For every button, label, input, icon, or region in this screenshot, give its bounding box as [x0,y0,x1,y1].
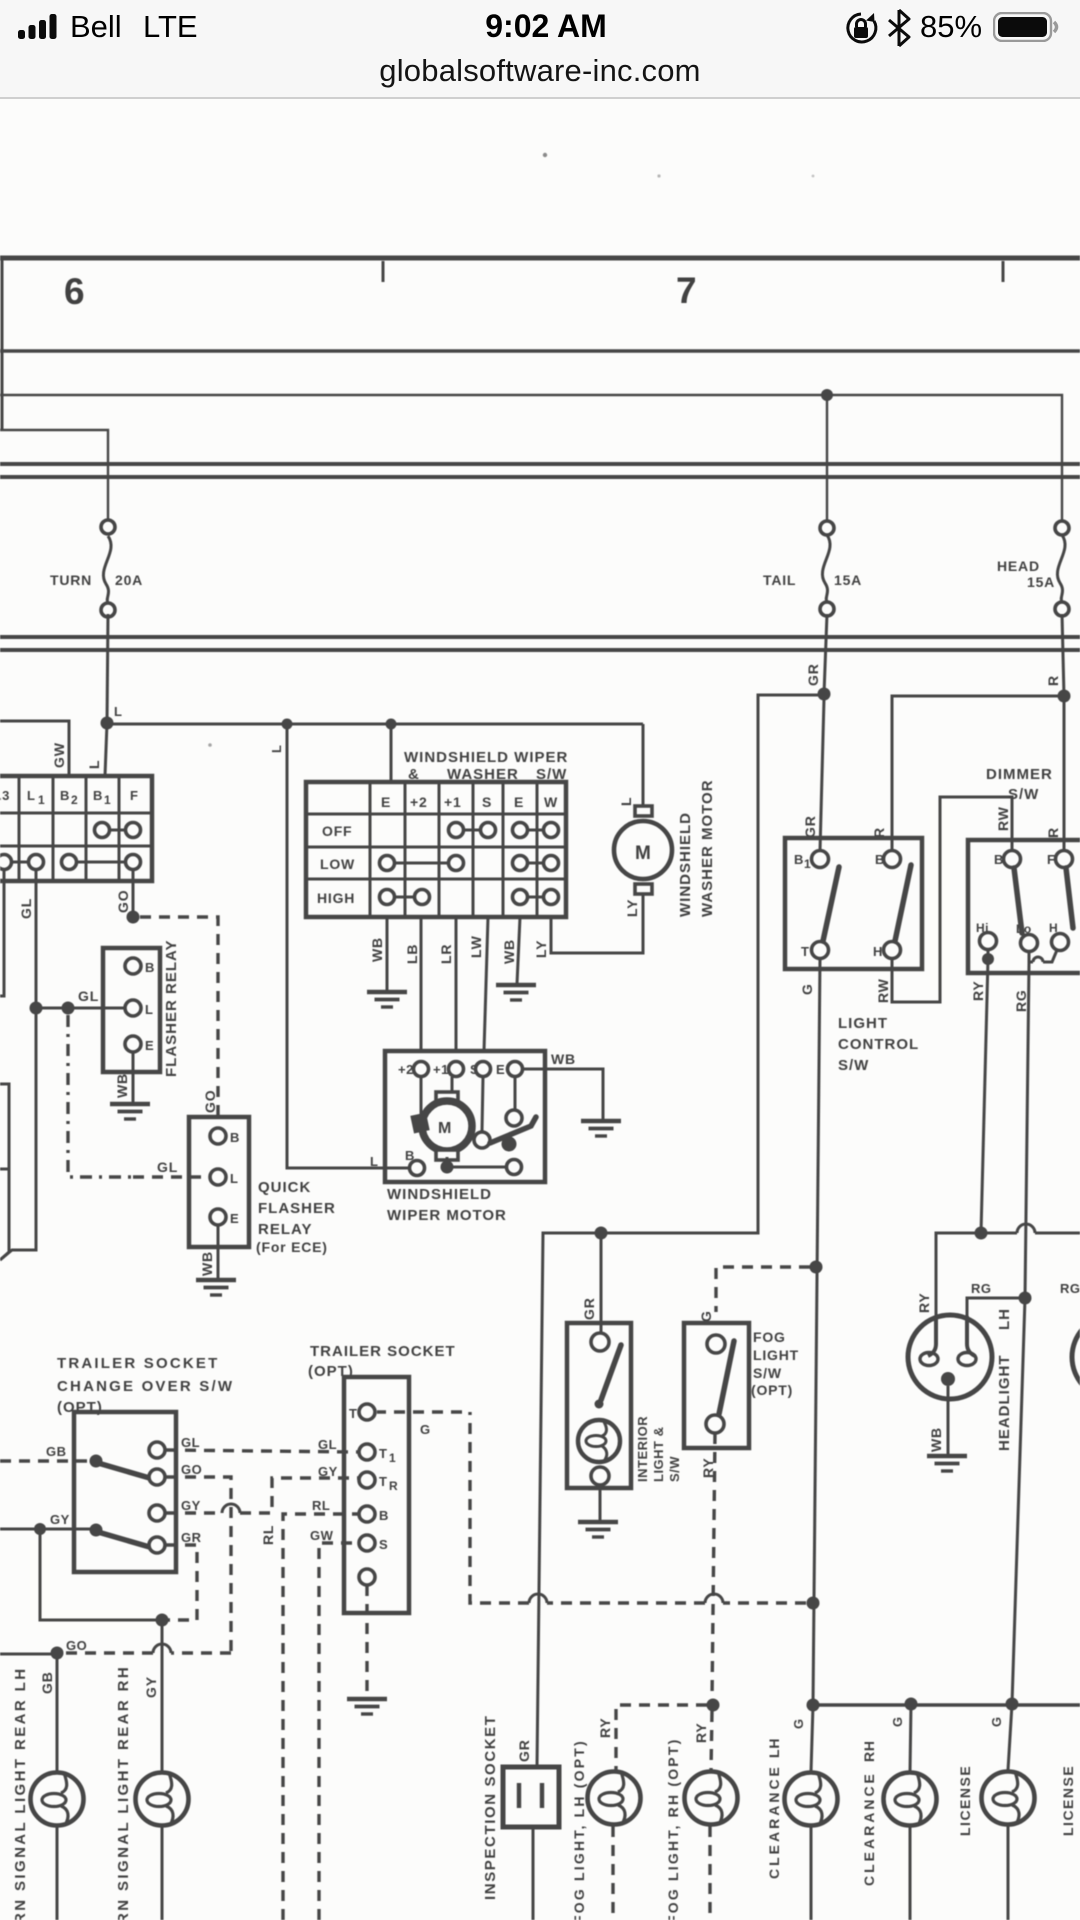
wire GL from L1 column down [0,870,36,1260]
svg-text:R: R [1045,675,1061,686]
svg-text:E: E [514,794,524,810]
svg-text:GR: GR [805,663,821,686]
svg-text:W: W [544,794,558,810]
svg-text:GR: GR [181,1530,202,1545]
svg-text:1: 1 [38,793,45,807]
svg-text:GO: GO [202,1090,218,1113]
svg-text:L: L [145,1002,153,1017]
svg-text:1: 1 [104,793,111,807]
svg-text:GO: GO [181,1462,202,1477]
svg-text:L: L [114,704,122,719]
wiper motor box M2 [385,1051,545,1182]
wire GB feed to turn signal LH [0,1653,57,1656]
interior light switch box S3 [567,1323,631,1488]
svg-text:RELAY: RELAY [258,1221,312,1238]
svg-text:GR: GR [516,1739,532,1762]
wire LB (+2) down to wiper motor [420,917,423,1051]
bus line B (double) [0,462,1080,466]
svg-text:GR: GR [581,1297,597,1320]
svg-text:CHANGE OVER S/W: CHANGE OVER S/W [57,1378,234,1395]
wire RG branch into headlight LH [967,1298,1025,1318]
dashed GL to T1 [166,1450,358,1452]
wire GY from left edge [0,1528,96,1531]
dashed RY from fog switch down to fog lamp RH [712,1433,715,1700]
node RY headlight branch [975,1227,988,1240]
wire feed to TURN fuse [0,430,108,520]
svg-text:6: 6 [64,271,85,312]
wire trailer socket to ground [365,1585,368,1698]
fuse TAIL 15A [763,521,862,616]
svg-text:.3: .3 [0,788,10,803]
quick flasher relay [189,1117,249,1247]
svg-text:T: T [801,944,809,959]
svg-text:B: B [93,788,103,803]
wire L horizontal run [107,723,643,726]
connector block (left, partially off-screen) [0,776,152,881]
wire GL to flasher relay L [36,1007,124,1010]
svg-text:M: M [438,1120,451,1137]
svg-text:R: R [1045,827,1061,838]
svg-text:+2: +2 [398,1062,414,1077]
svg-text:LY: LY [533,940,549,958]
svg-text:GO: GO [115,890,131,913]
svg-text:TURN: TURN [50,572,92,588]
svg-text:+1: +1 [433,1062,449,1077]
svg-text:R: R [389,1479,398,1493]
svg-text:GW: GW [310,1528,334,1543]
wire interior light to ground [599,1485,602,1521]
svg-text:WIPER MOTOR: WIPER MOTOR [387,1207,507,1224]
wire GY feed to turn signal RH [40,1529,162,1620]
turn signal light rear RH lamp [136,1773,189,1826]
svg-text:WB: WB [501,939,517,964]
dashed fog light feed [716,1267,810,1312]
clearance RH lamp [884,1773,937,1826]
ground interior light [578,1522,618,1537]
wire G from T down to clearance bus [813,958,820,1705]
battery icon [993,12,1063,42]
wire GR branch to interior/inspection feeder [537,695,824,1767]
svg-text:QUICK: QUICK [258,1179,311,1196]
svg-text:S/W: S/W [667,1456,682,1482]
motor symbol inside [436,1092,458,1102]
ground wiper motor [581,1121,621,1136]
washer motor M1 [614,806,672,894]
svg-text:LH: LH [766,1738,782,1758]
node clearance RH [905,1698,918,1711]
svg-text:LICENSE: LICENSE [957,1765,973,1836]
svg-text:L: L [370,1154,378,1169]
svg-text:(OPT): (OPT) [751,1382,793,1398]
dashed RY branch to fog lamp LH [616,1705,707,1770]
cam contact [482,1077,515,1131]
svg-text:GB: GB [39,1671,55,1694]
wire L3 column down and off left [0,870,4,996]
svg-text:G: G [698,1310,714,1322]
svg-text:HEAD: HEAD [997,558,1040,574]
svg-text:L: L [27,788,35,803]
svg-text:GR: GR [802,815,818,838]
svg-text:RG: RG [971,1281,992,1296]
svg-text:CONTROL: CONTROL [838,1036,919,1053]
svg-text:L: L [230,1171,238,1186]
wire from L run down to washer motor [642,724,645,806]
svg-text:HIGH: HIGH [317,890,355,906]
hop of GY dash over GO dash [222,1504,240,1513]
svg-text:S/W: S/W [1008,786,1039,803]
headlight LH lamp [908,1315,992,1399]
svg-text:LOW: LOW [320,856,355,872]
svg-text:G: G [890,1716,905,1727]
svg-text:+1: +1 [444,794,462,810]
svg-text:7: 7 [676,270,697,311]
svg-text:B: B [794,852,804,867]
svg-text:WASHER MOTOR: WASHER MOTOR [699,779,716,917]
svg-text:F: F [130,788,138,803]
svg-text:E: E [381,794,391,810]
wire feed to TAIL fuse [826,400,828,521]
license lamp [982,1772,1035,1825]
dashed RL from bottom to B [283,1514,358,1920]
svg-text:B: B [60,788,70,803]
wire R down to dimmer F [1063,696,1066,850]
svg-text:LH: LH [996,1308,1013,1330]
svg-text:RY: RY [597,1717,613,1738]
svg-text:(For ECE): (For ECE) [256,1239,328,1255]
svg-text:LIGHT &: LIGHT & [651,1427,666,1483]
node GL junctions [30,1002,43,1015]
svg-text:T: T [379,1474,387,1489]
svg-text:E: E [496,1062,505,1077]
wire turn signal LH lamp [56,1653,59,1920]
fog light switch box S4 [684,1323,749,1448]
inspection socket box J1 [503,1767,559,1827]
svg-text:H: H [873,944,883,959]
svg-text:S: S [482,794,492,810]
node G dashed branch [807,1597,820,1610]
scan specks [543,153,547,157]
dashed GO to quick flasher relay [140,917,218,1117]
svg-text:DIMMER: DIMMER [986,766,1053,783]
wire license lamp [1008,1704,1012,1920]
svg-text:S: S [379,1537,388,1552]
svg-text:RL: RL [260,1525,276,1545]
trailer socket change over switch box S5 [74,1412,176,1572]
iPhone status bar [0,0,1080,99]
wire LW (S) down to wiper motor [484,917,488,1051]
svg-text:LR: LR [438,944,454,964]
light control switch box S1 [785,838,922,969]
wire TURN fuse down to node L [107,614,108,723]
svg-text:B: B [379,1508,389,1523]
svg-text:OFF: OFF [322,823,352,839]
svg-text:GL: GL [318,1437,337,1452]
fog light LH lamp [588,1772,641,1825]
svg-text:GY: GY [318,1464,338,1479]
node fog light feed on G wire [810,1261,823,1274]
svg-text:B: B [145,960,155,975]
svg-text:WB: WB [199,1251,215,1276]
svg-text:WB: WB [369,937,385,962]
node RY fog branch [707,1699,720,1712]
svg-text:GY: GY [50,1512,70,1527]
ruler tick 2 [1002,261,1005,282]
svg-text:FOG LIGHT, LH (OPT): FOG LIGHT, LH (OPT) [571,1739,587,1920]
svg-text:TRAILER SOCKET: TRAILER SOCKET [57,1355,219,1372]
node GR below TAIL fuse [818,688,831,701]
ground below table right [496,985,536,1000]
svg-text:S/W: S/W [753,1365,782,1381]
wire RY branch into headlight LH [936,1233,981,1318]
svg-text:WB: WB [114,1073,130,1098]
wire down to interior light switch [600,1233,603,1333]
node L [101,717,114,730]
node license [1006,1698,1019,1711]
contacts row OFF [449,823,464,838]
svg-text:2: 2 [71,793,78,807]
wire WB from wiper motor E to ground [523,1069,603,1120]
node on L run at x391 [386,719,397,730]
svg-text:LIGHT: LIGHT [838,1015,888,1032]
dashed below fog LH [611,1826,614,1920]
wire LR (+1) down to wiper motor [455,917,458,1051]
wire from L run down into switch table E column [390,729,393,782]
wire WB (E col) to ground [386,917,389,991]
svg-text:RH: RH [861,1740,877,1762]
node GO [127,911,140,924]
svg-text:GY: GY [143,1676,159,1698]
contacts row LOW [380,856,395,871]
svg-text:CLEARANCE: CLEARANCE [766,1764,782,1879]
svg-text:CLEARANCE: CLEARANCE [861,1771,877,1886]
wire L down to connector B1 [105,723,107,776]
hop of GO dash over RH lamp wire [153,1644,171,1653]
svg-text:WINDSHIELD WIPER: WINDSHIELD WIPER [404,749,568,766]
wire RW from H to dimmer B [892,797,1012,1002]
svg-text:RY: RY [970,980,986,1001]
wire turn signal RH lamp [161,1620,164,1920]
dashed GW from bottom to S [319,1543,358,1920]
left edge component stub [0,1084,9,1260]
ground flasher relay [110,1104,150,1119]
svg-text:LICENSE: LICENSE [1060,1765,1076,1836]
wire flasher E to ground [132,1052,135,1103]
wire R branch to light control B [892,696,1064,850]
svg-text:GO: GO [66,1638,87,1653]
svg-text:INSPECTION SOCKET: INSPECTION SOCKET [482,1714,499,1900]
ground below table left [367,992,407,1007]
svg-text:GW: GW [51,742,67,768]
svg-text:LIGHT: LIGHT [753,1347,799,1363]
contacts row HIGH [380,890,395,905]
fog light RH lamp [685,1772,738,1825]
svg-text:L: L [86,760,102,769]
svg-text:FOG: FOG [753,1329,786,1345]
wire GW from left edge to connector [0,721,69,776]
svg-text:WINDSHIELD: WINDSHIELD [387,1186,492,1203]
svg-text:RG: RG [1013,989,1029,1012]
dashed GR short loop [166,1545,197,1620]
svg-text:RW: RW [875,978,891,1003]
node turn signal RH [156,1614,169,1627]
svg-text:T: T [349,1406,357,1421]
wire headlight feed to RH with hop over RG [981,1224,1080,1233]
node GY [34,1523,46,1535]
headlight RH partial at screen edge [1072,1315,1080,1399]
clearance bus [813,1703,1080,1707]
svg-text:GB: GB [46,1444,67,1459]
wire GR down to light control B1 [820,699,824,851]
svg-text:E: E [145,1038,154,1053]
wire headlight to ground [947,1386,950,1455]
wire HEAD fuse down to node R [1062,614,1064,696]
node turn signal LH [51,1647,64,1660]
dashed GO loop to turn signal LH feed [64,1477,231,1653]
hop of G dash over fog RY wire [705,1594,723,1603]
svg-text:WB: WB [928,1427,944,1452]
svg-text:RL: RL [312,1498,330,1513]
wire GO from F column down to node [132,870,135,917]
svg-text:HEADLIGHT: HEADLIGHT [996,1355,1013,1452]
wire LY from W col to washer motor [551,893,643,953]
svg-text:INTERIOR: INTERIOR [635,1416,650,1482]
dashed below fog RH [708,1826,711,1920]
svg-text:FLASHER RELAY: FLASHER RELAY [163,940,180,1077]
turn signal light rear LH lamp [31,1773,84,1826]
wire clearance LH lamp [811,1705,813,1920]
wire quick flasher E to ground [217,1225,220,1278]
svg-text:FLASHER: FLASHER [258,1200,336,1217]
svg-text:RY: RY [916,1292,932,1313]
svg-text:GL: GL [18,898,34,919]
svg-text:S/W: S/W [838,1057,869,1074]
svg-text:G: G [420,1422,431,1437]
clearance LH lamp [785,1773,838,1826]
svg-text:GL: GL [78,988,99,1004]
signal bars [18,30,25,39]
wire RY down to headlight branch [981,959,988,1233]
rotation lock icon [843,11,879,47]
svg-text:RY: RY [693,1722,709,1743]
flasher relay [103,948,160,1072]
node on feed line above TAIL fuse [821,389,833,401]
svg-text:RN SIGNAL LIGHT REAR LH: RN SIGNAL LIGHT REAR LH [12,1667,29,1920]
ruler tick 1 [382,261,385,282]
node clearance LH [807,1699,820,1712]
node interior light feed [595,1227,608,1240]
svg-text:15A: 15A [834,572,862,588]
trailer socket box J2 [344,1377,409,1613]
node R below HEAD fuse [1058,690,1071,703]
ground headlight [927,1456,967,1471]
svg-text:LW: LW [468,935,484,958]
svg-text:TAIL: TAIL [763,572,796,588]
svg-text:20A: 20A [115,572,143,588]
wire WB (E col 2) to ground [517,917,520,984]
svg-text:GL: GL [181,1435,200,1450]
svg-text:WINDSHIELD: WINDSHIELD [677,812,694,917]
svg-text:+2: +2 [410,794,428,810]
wire RG down to license bus [1012,963,1029,1704]
svg-text:RG: RG [1060,1281,1080,1296]
svg-text:E: E [230,1211,239,1226]
svg-text:T: T [379,1446,387,1461]
bus line C (double) [0,635,1080,639]
wire clearance RH lamp [910,1704,911,1920]
dashed GB from left edge [0,1459,89,1462]
svg-text:LY: LY [624,899,640,917]
svg-text:G: G [791,1718,806,1729]
bluetooth icon [886,9,912,47]
svg-text:15A: 15A [1027,574,1055,590]
svg-text:1: 1 [389,1451,396,1465]
hop of G dash over inspection wire [529,1594,547,1603]
svg-text:M: M [635,843,651,864]
wire TAIL fuse down to node GR [824,614,827,694]
svg-text:WB: WB [551,1051,576,1067]
dimmer switch box S2 [968,840,1080,973]
dashed GY to TR with hop [166,1478,358,1513]
ground quick flasher [196,1280,236,1295]
svg-text:L: L [269,745,284,753]
fuse TURN 20A [50,520,143,617]
svg-text:RN SIGNAL LIGHT REAR RH: RN SIGNAL LIGHT REAR RH [115,1665,132,1920]
ruler line top [0,256,1080,261]
svg-text:L: L [618,797,634,806]
svg-text:G: G [799,983,815,995]
wire below inspection socket [532,1827,535,1920]
svg-text:GL: GL [157,1159,178,1175]
wiper/washer switch table U1 [306,782,566,917]
dashed G to trailer socket T with hops [377,1412,806,1603]
fuse HEAD 15A [997,521,1069,616]
feed line to TAIL and HEAD fuses [0,395,1062,521]
svg-text:LB: LB [404,944,420,964]
ground trailer socket [347,1699,387,1714]
svg-text:FOG LIGHT, RH (OPT): FOG LIGHT, RH (OPT) [665,1738,681,1920]
svg-text:TRAILER SOCKET: TRAILER SOCKET [310,1343,456,1360]
svg-text:RW: RW [995,806,1011,831]
bus line A [0,349,1080,353]
svg-text:GY: GY [181,1498,201,1513]
node RG headlight branch [1019,1292,1032,1305]
svg-text:G: G [989,1716,1004,1727]
wire L bus down to wiper motor [287,724,409,1168]
svg-text:B: B [230,1130,240,1145]
dash-dot GL down to quick flasher relay [68,1015,133,1177]
node on L run at x287 [282,719,293,730]
sheet border left edge [1,258,4,430]
